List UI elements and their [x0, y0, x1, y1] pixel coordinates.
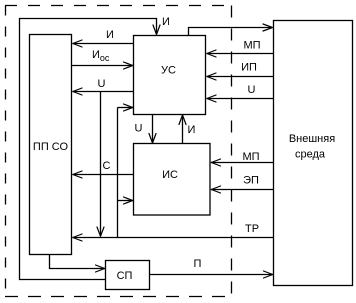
block Внешняя среда: [274, 21, 353, 286]
arrow left into ПП СО (ТР): [73, 234, 82, 241]
svg-text:ЭП: ЭП: [243, 175, 259, 187]
block УС: [134, 36, 206, 115]
svg-text:U: U: [98, 78, 106, 90]
wire И: УС to ПП СО: [73, 43, 134, 45]
arrowheads: [73, 24, 273, 278]
wire U: УС to ПП СО: [73, 91, 134, 93]
wire ТР: Внешняя среда to ПП СО: [73, 237, 274, 239]
dashed system boundary left: [5, 6, 7, 297]
arrow left into ИС (МП): [211, 159, 220, 166]
svg-text:ИП: ИП: [241, 62, 257, 74]
block ПП СО: [30, 35, 72, 255]
arrow left into УС (ИП): [207, 73, 216, 80]
svg-text:МП: МП: [242, 151, 259, 163]
block ИС: [134, 144, 211, 216]
svg-text:УС: УС: [161, 65, 176, 77]
wire branch into УС left: [118, 107, 134, 109]
block СП: [106, 261, 150, 290]
arrow left into ИС (ЭП): [211, 186, 220, 193]
arrow left into ПП СО (С): [73, 171, 82, 178]
wire И feedback: СП left, up the far left, into УС top: [20, 19, 157, 280]
svg-text:С: С: [103, 160, 111, 172]
wire ЭП: Внешняя среда to ИС: [211, 189, 273, 191]
arrow left into УС (МП): [207, 50, 216, 57]
dashed system boundary top: [5, 5, 232, 7]
wire И: ИС up to УС: [182, 115, 184, 144]
svg-text:U: U: [135, 123, 143, 135]
arrow right into УС (Иос): [124, 62, 133, 69]
arrow right into Внешняя среда (И output): [263, 24, 273, 31]
arrow right into Внешняя среда (П): [264, 271, 273, 278]
svg-text:МП: МП: [243, 40, 260, 52]
arrow down into УС top (И feedback): [153, 25, 160, 35]
arrow left into ПП СО (U): [73, 88, 82, 95]
wire U: Внешняя среда to УС: [207, 98, 274, 100]
svg-text:U: U: [248, 84, 256, 96]
arrow down into ИС top (U): [149, 134, 156, 144]
svg-text:И: И: [188, 124, 196, 136]
wire branch from ТР up: [117, 108, 119, 238]
wire branch into ИС left: [118, 200, 134, 202]
arrow down onto ТР line (U branch): [97, 227, 104, 236]
wire Иос: ПП СО to УС: [72, 65, 133, 67]
arrow left into ПП СО (И): [73, 40, 82, 47]
dashed system boundary right: [231, 6, 233, 297]
svg-text:И: И: [162, 16, 170, 28]
arrow left into УС (U): [207, 95, 216, 102]
svg-text:Внешняя: Внешняя: [289, 133, 335, 145]
dashed system boundary bottom: [5, 296, 232, 298]
svg-text:ИС: ИС: [162, 169, 178, 181]
arrow right into ИС left (branch): [124, 197, 133, 204]
wire U branch down to ТР line: [100, 92, 102, 236]
wire МП: Внешняя среда to УС: [207, 53, 274, 55]
svg-text:среда: среда: [295, 149, 326, 161]
svg-text:ПП СО: ПП СО: [33, 141, 69, 153]
svg-text:П: П: [194, 258, 202, 270]
arrow right into СП (from ПП СО): [96, 265, 105, 272]
wire U: УС down to ИС: [152, 115, 154, 144]
svg-text:СП: СП: [117, 270, 133, 282]
wire С: ИС to ПП СО: [73, 174, 134, 176]
wire ПП СО to СП: [50, 255, 106, 269]
wire ИП: Внешняя среда to УС: [207, 76, 274, 78]
wire МП: Внешняя среда to ИС: [211, 162, 273, 164]
wire И output: УС top to Внешняя среда: [189, 28, 273, 36]
svg-text:И: И: [106, 29, 114, 41]
wire П: СП to Внешняя среда: [150, 274, 273, 276]
arrow up into УС bottom (И): [179, 115, 186, 125]
svg-text:ТР: ТР: [245, 223, 259, 235]
arrow right into УС left (branch): [124, 104, 133, 111]
